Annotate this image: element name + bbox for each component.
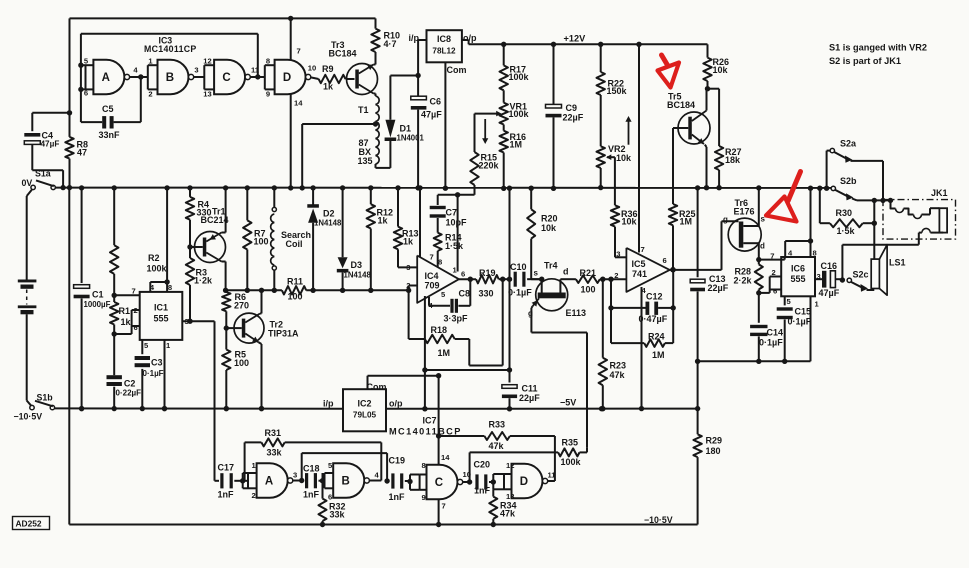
svg-text:R35: R35 <box>562 438 579 448</box>
svg-text:−5V: −5V <box>560 398 576 408</box>
svg-text:C11: C11 <box>522 384 538 394</box>
svg-text:2: 2 <box>772 268 776 277</box>
svg-text:TIP31A: TIP31A <box>268 329 299 339</box>
svg-text:6: 6 <box>328 493 332 502</box>
svg-text:D2: D2 <box>323 209 335 219</box>
svg-text:Com: Com <box>447 65 467 75</box>
svg-text:g: g <box>528 309 533 318</box>
svg-text:R21: R21 <box>580 268 597 278</box>
svg-text:S2b: S2b <box>840 176 857 186</box>
svg-text:33k: 33k <box>267 448 283 458</box>
svg-text:C6: C6 <box>430 97 442 107</box>
svg-text:10: 10 <box>308 64 316 73</box>
svg-text:T1: T1 <box>358 105 369 115</box>
svg-text:R30: R30 <box>836 208 853 218</box>
svg-text:555: 555 <box>153 314 168 324</box>
svg-text:100k: 100k <box>509 109 530 119</box>
svg-text:1nF: 1nF <box>389 492 406 502</box>
svg-text:7: 7 <box>132 287 136 296</box>
svg-text:S2a: S2a <box>840 139 857 149</box>
svg-text:C15: C15 <box>795 307 812 317</box>
svg-text:0·47µF: 0·47µF <box>639 314 668 324</box>
svg-text:s: s <box>761 215 766 224</box>
svg-text:47k: 47k <box>500 509 516 519</box>
svg-text:BC184: BC184 <box>667 100 695 110</box>
svg-text:B: B <box>166 72 174 84</box>
svg-text:3: 3 <box>616 250 620 259</box>
svg-text:1nF: 1nF <box>474 486 491 496</box>
svg-text:R11: R11 <box>287 277 303 287</box>
svg-text:0·1µF: 0·1µF <box>508 288 532 298</box>
svg-text:C: C <box>222 72 230 84</box>
svg-text:C10: C10 <box>510 262 527 272</box>
svg-text:47µF: 47µF <box>819 288 840 298</box>
svg-text:3: 3 <box>194 66 198 75</box>
svg-text:C9: C9 <box>566 103 578 113</box>
svg-text:R9: R9 <box>322 64 334 74</box>
svg-text:R29: R29 <box>706 436 723 446</box>
svg-text:Com: Com <box>367 382 387 392</box>
svg-text:330: 330 <box>479 289 494 299</box>
svg-text:555: 555 <box>790 274 805 284</box>
svg-text:135: 135 <box>358 156 373 166</box>
svg-text:E176: E176 <box>734 207 755 217</box>
svg-text:JK1: JK1 <box>931 188 948 198</box>
svg-text:d: d <box>563 267 569 277</box>
svg-text:3: 3 <box>817 272 821 281</box>
svg-text:R1: R1 <box>119 306 131 316</box>
svg-text:1N4001: 1N4001 <box>397 134 425 143</box>
svg-text:220k: 220k <box>479 161 500 171</box>
svg-text:+12V: +12V <box>564 34 587 44</box>
svg-text:1M: 1M <box>680 217 693 227</box>
svg-text:14: 14 <box>294 99 303 108</box>
svg-text:11: 11 <box>548 471 557 480</box>
svg-text:S1a: S1a <box>35 169 51 179</box>
svg-text:1N4148: 1N4148 <box>314 219 342 228</box>
svg-text:D1: D1 <box>400 124 412 134</box>
svg-text:R2: R2 <box>148 253 160 263</box>
svg-text:33k: 33k <box>330 510 346 520</box>
svg-text:79L05: 79L05 <box>353 411 377 420</box>
svg-text:R19: R19 <box>479 268 496 278</box>
svg-text:12: 12 <box>506 461 514 470</box>
svg-text:6: 6 <box>663 256 667 265</box>
svg-text:R20: R20 <box>541 214 558 224</box>
svg-text:1M: 1M <box>510 140 523 150</box>
svg-text:C8: C8 <box>459 289 471 299</box>
svg-text:IC6: IC6 <box>791 264 805 274</box>
svg-text:IC2: IC2 <box>357 399 371 409</box>
svg-text:100: 100 <box>288 292 303 302</box>
svg-text:3·3pF: 3·3pF <box>444 314 469 324</box>
svg-text:709: 709 <box>425 281 440 291</box>
svg-text:10: 10 <box>463 470 471 479</box>
svg-text:S2 is part of JK1: S2 is part of JK1 <box>829 56 901 66</box>
svg-text:s: s <box>534 269 539 278</box>
svg-text:47µF: 47µF <box>41 139 60 148</box>
svg-text:R33: R33 <box>489 420 506 430</box>
svg-text:1M: 1M <box>652 350 665 360</box>
svg-text:−10·5V: −10·5V <box>644 515 673 525</box>
svg-text:R18: R18 <box>431 325 448 335</box>
svg-text:100k: 100k <box>561 457 582 467</box>
svg-text:3: 3 <box>293 471 297 480</box>
svg-text:LS1: LS1 <box>889 258 906 268</box>
svg-text:−10·5V: −10·5V <box>14 412 43 422</box>
svg-text:C18: C18 <box>303 464 320 474</box>
svg-text:1000µF: 1000µF <box>84 300 111 309</box>
svg-text:11: 11 <box>251 66 260 75</box>
svg-text:9: 9 <box>422 493 426 502</box>
svg-text:6: 6 <box>461 270 465 279</box>
svg-text:10k: 10k <box>616 153 632 163</box>
svg-text:C2: C2 <box>124 379 136 389</box>
svg-text:3: 3 <box>406 263 410 272</box>
svg-text:8: 8 <box>422 461 426 470</box>
svg-text:8: 8 <box>266 57 270 66</box>
svg-text:100k: 100k <box>509 72 530 82</box>
svg-text:S1 is ganged with VR2: S1 is ganged with VR2 <box>829 43 927 53</box>
svg-text:D: D <box>283 72 291 84</box>
svg-text:10pF: 10pF <box>446 218 468 228</box>
svg-text:0·22µF: 0·22µF <box>116 389 142 398</box>
svg-text:22µF: 22µF <box>519 393 540 403</box>
svg-text:6: 6 <box>773 287 777 296</box>
svg-text:E113: E113 <box>566 308 587 318</box>
svg-text:1nF: 1nF <box>218 490 235 500</box>
svg-text:7: 7 <box>770 252 774 261</box>
svg-text:0·1µF: 0·1µF <box>759 338 783 348</box>
svg-text:Tr4: Tr4 <box>544 261 558 271</box>
svg-text:7: 7 <box>430 253 434 262</box>
svg-text:12: 12 <box>203 57 211 66</box>
svg-text:10k: 10k <box>622 217 638 227</box>
svg-text:7: 7 <box>297 47 301 56</box>
svg-text:6: 6 <box>84 89 88 98</box>
svg-text:i/p: i/p <box>323 399 334 409</box>
svg-text:47µF: 47µF <box>421 110 442 120</box>
svg-text:C1: C1 <box>92 290 104 300</box>
svg-text:1·5k: 1·5k <box>445 241 464 251</box>
svg-text:o/p: o/p <box>463 33 477 43</box>
svg-text:d: d <box>760 242 765 251</box>
svg-text:MC14011CP: MC14011CP <box>144 44 197 54</box>
svg-text:A: A <box>102 72 110 84</box>
svg-text:9: 9 <box>266 90 270 99</box>
svg-text:Coil: Coil <box>286 239 303 249</box>
svg-text:47k: 47k <box>489 441 505 451</box>
svg-text:o/p: o/p <box>389 399 403 409</box>
svg-text:1·5k: 1·5k <box>837 226 856 236</box>
svg-text:C7: C7 <box>446 208 458 218</box>
svg-text:BC214: BC214 <box>201 215 229 225</box>
svg-text:8: 8 <box>813 249 817 258</box>
svg-text:270: 270 <box>234 301 249 311</box>
svg-text:7: 7 <box>442 502 446 511</box>
svg-text:C20: C20 <box>474 460 491 470</box>
svg-text:741: 741 <box>632 269 647 279</box>
svg-text:0·1µF: 0·1µF <box>143 369 164 378</box>
svg-text:B: B <box>341 476 349 488</box>
svg-text:C: C <box>435 477 443 489</box>
svg-text:7: 7 <box>641 245 645 254</box>
svg-text:33nF: 33nF <box>99 130 121 140</box>
svg-text:2·2k: 2·2k <box>734 276 753 286</box>
svg-text:C16: C16 <box>821 261 838 271</box>
svg-text:1·2k: 1·2k <box>194 276 213 286</box>
svg-text:2: 2 <box>252 491 256 500</box>
svg-text:BC184: BC184 <box>329 49 357 59</box>
svg-text:R23: R23 <box>610 361 627 371</box>
svg-text:10k: 10k <box>713 65 729 75</box>
svg-text:8: 8 <box>168 283 172 292</box>
svg-text:IC4: IC4 <box>425 271 439 281</box>
svg-text:2: 2 <box>614 271 618 280</box>
svg-text:D3: D3 <box>351 260 363 270</box>
svg-text:1k: 1k <box>378 216 389 226</box>
svg-text:AD252: AD252 <box>16 519 42 529</box>
svg-text:1N4148: 1N4148 <box>344 271 372 280</box>
svg-text:100k: 100k <box>147 264 168 274</box>
svg-text:IC5: IC5 <box>632 259 646 269</box>
svg-text:22µF: 22µF <box>708 283 729 293</box>
svg-text:1k: 1k <box>323 82 334 92</box>
svg-text:C17: C17 <box>218 463 235 473</box>
svg-text:0·1µF: 0·1µF <box>788 317 812 327</box>
svg-text:100: 100 <box>234 358 249 368</box>
svg-text:A: A <box>265 476 273 488</box>
svg-text:6: 6 <box>134 323 138 332</box>
svg-text:IC7: IC7 <box>423 416 437 426</box>
svg-text:10k: 10k <box>541 223 557 233</box>
svg-text:C3: C3 <box>151 358 163 368</box>
svg-text:180: 180 <box>706 446 721 456</box>
svg-text:C14: C14 <box>767 328 784 338</box>
svg-text:C19: C19 <box>389 456 406 466</box>
svg-text:47k: 47k <box>610 370 626 380</box>
svg-text:4·7: 4·7 <box>384 39 397 49</box>
svg-text:22µF: 22µF <box>563 113 584 123</box>
svg-text:C5: C5 <box>102 104 114 114</box>
svg-text:1k: 1k <box>403 237 414 247</box>
svg-text:IC8: IC8 <box>437 34 451 44</box>
svg-text:g: g <box>723 215 728 224</box>
svg-text:D: D <box>520 476 528 488</box>
svg-text:100: 100 <box>254 237 269 247</box>
svg-text:S2c: S2c <box>853 270 869 280</box>
svg-text:R24: R24 <box>648 332 665 342</box>
svg-text:2: 2 <box>148 90 152 99</box>
svg-text:C12: C12 <box>646 292 663 302</box>
svg-text:78L12: 78L12 <box>432 47 456 56</box>
svg-text:1M: 1M <box>438 348 451 358</box>
svg-text:IC1: IC1 <box>154 303 168 313</box>
svg-text:13: 13 <box>203 90 211 99</box>
svg-text:18k: 18k <box>725 155 741 165</box>
svg-text:150k: 150k <box>607 86 628 96</box>
svg-text:2: 2 <box>134 306 138 315</box>
svg-text:1nF: 1nF <box>303 490 320 500</box>
svg-text:14: 14 <box>441 453 450 462</box>
svg-text:R31: R31 <box>265 428 282 438</box>
svg-text:47: 47 <box>77 148 87 158</box>
svg-text:100: 100 <box>581 285 596 295</box>
svg-text:1k: 1k <box>121 317 132 327</box>
